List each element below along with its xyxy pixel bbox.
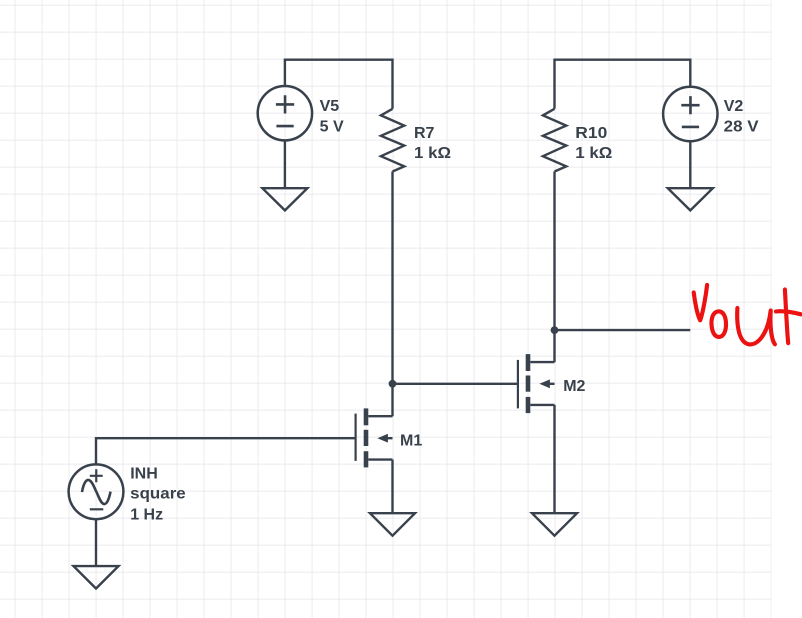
svg-text:R7: R7: [414, 125, 435, 142]
ground under INH: [74, 566, 119, 588]
ground under V2: [668, 188, 713, 210]
svg-text:28 V: 28 V: [724, 119, 759, 136]
svg-text:1 kΩ: 1 kΩ: [575, 145, 612, 162]
svg-text:R10: R10: [575, 125, 607, 142]
transistor M2 (NMOS): [518, 354, 555, 413]
transistor M1 (NMOS): [356, 408, 393, 467]
wire: M2 source to ground: [553, 405, 555, 513]
wire: V5 bottom to ground: [284, 140, 286, 188]
node junction dot B (R7 / M2 gate): [389, 380, 397, 388]
svg-text:1 Hz: 1 Hz: [130, 506, 163, 523]
svg-text:INH: INH: [130, 465, 158, 482]
resistor R10: [543, 109, 566, 172]
resistor R7: [381, 109, 404, 172]
ground under V5: [262, 188, 307, 210]
wire: V5 top to R7 top rail: [285, 60, 393, 109]
node junction dot A (R10 / M2 drain / Vout): [551, 326, 559, 334]
svg-text:M2: M2: [563, 378, 585, 395]
wire: R7 bottom down to M1 drain: [391, 172, 393, 417]
svg-text:M1: M1: [400, 432, 422, 449]
svg-text:5 V: 5 V: [320, 118, 344, 135]
wire: INH bottom to ground: [95, 519, 97, 566]
svg-text:1 kΩ: 1 kΩ: [414, 145, 451, 162]
wire: V2 bottom to ground: [689, 141, 691, 188]
annotation: handwritten red Vout: [694, 285, 801, 344]
svg-text:V5: V5: [320, 98, 340, 115]
wire: M1 source to ground: [391, 460, 393, 514]
svg-text:square: square: [130, 486, 186, 503]
wire: R10 bottom to node A and M2 drain: [553, 172, 555, 363]
wire: R10 top rail to V2: [555, 60, 691, 109]
wire: node B to M2 gate: [393, 383, 518, 385]
voltage source V5: [258, 86, 312, 140]
ground under M2: [532, 513, 577, 536]
wire: node A to Vout lead: [555, 329, 691, 331]
voltage source V2: [663, 87, 717, 141]
svg-text:V2: V2: [724, 98, 744, 115]
wire: INH top to M1 gate: [96, 438, 356, 464]
source INH (square 1 Hz): [69, 464, 124, 519]
ground under M1: [370, 513, 415, 536]
